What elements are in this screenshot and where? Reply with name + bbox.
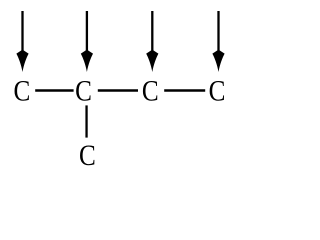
svg-text:C: C xyxy=(14,75,31,107)
svg-text:C: C xyxy=(79,139,96,171)
svg-text:C: C xyxy=(75,75,92,107)
svg-text:C: C xyxy=(209,75,226,107)
svg-text:C: C xyxy=(142,75,159,107)
